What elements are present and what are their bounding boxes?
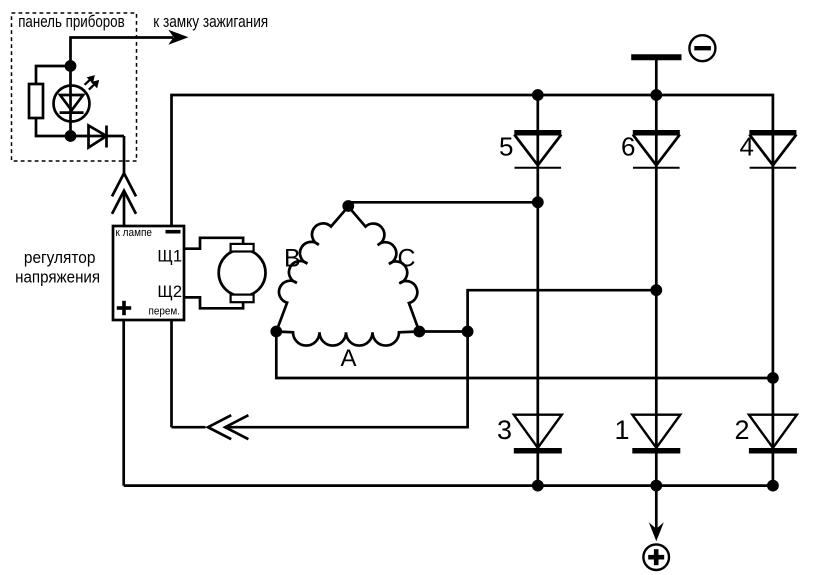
junction dot: delta bottom left bbox=[270, 326, 282, 338]
stator winding C (right side of delta) bbox=[348, 207, 419, 332]
junction dot: delta bottom right bbox=[413, 326, 425, 338]
dashed enclosure: instrument panel bbox=[12, 13, 137, 161]
svg-text:Щ2: Щ2 bbox=[157, 283, 182, 301]
arrowhead: plus output bbox=[649, 522, 664, 541]
diode 2 bbox=[749, 415, 797, 451]
wire: AC link left part bbox=[172, 426, 206, 429]
voltage regulator box bbox=[113, 226, 184, 320]
svg-text:4: 4 bbox=[740, 131, 754, 161]
junction dot: lamp top node bbox=[65, 60, 77, 72]
svg-text:С: С bbox=[398, 245, 416, 273]
stator winding A (bottom side of delta) bbox=[276, 332, 419, 346]
junction dot: top bus column 6 bbox=[650, 89, 662, 101]
wire: phase node up and to column 6 bbox=[468, 290, 657, 331]
wire: panel to regulator lamp terminal (upper) bbox=[123, 136, 126, 173]
junction dot: delta apex bbox=[342, 200, 354, 212]
stator winding B (left side of delta) bbox=[276, 207, 348, 332]
junction dot: lamp bottom node bbox=[65, 130, 77, 142]
wire: regulator AC terminal down bbox=[170, 320, 173, 427]
svg-text:1: 1 bbox=[614, 415, 629, 445]
junction dot: bottom bus right rail bbox=[767, 480, 779, 492]
wire: regulator plus down left rail bbox=[122, 320, 125, 486]
negative terminal bar bbox=[631, 54, 681, 60]
arrowhead: to ignition switch bbox=[168, 30, 188, 45]
diode VD (panel blocking diode) bbox=[89, 126, 107, 148]
svg-text:А: А bbox=[341, 345, 357, 372]
brush Sch1 (top) bbox=[231, 244, 254, 252]
wire: resistor branch bottom bbox=[36, 118, 71, 136]
svg-text:В: В bbox=[284, 245, 301, 273]
connector chevron left 1 bbox=[208, 415, 231, 439]
wire: delta bottom right to phase node bbox=[419, 330, 467, 333]
svg-text:напряжения: напряжения bbox=[15, 267, 100, 286]
wire: lamp output to panel diode bbox=[71, 135, 125, 138]
junction dot: apex wire to column 5 bbox=[532, 196, 544, 208]
junction dot: top bus column 5 bbox=[532, 89, 544, 101]
svg-text:регулятор: регулятор bbox=[24, 248, 96, 267]
diode 4 bbox=[749, 133, 796, 168]
svg-text:5: 5 bbox=[499, 131, 513, 161]
brush Sch2 (bottom) bbox=[231, 295, 254, 303]
junction dot: bottom bus column 5 bbox=[532, 480, 544, 492]
svg-text:6: 6 bbox=[621, 131, 635, 161]
wire: bottom positive bus bbox=[124, 484, 773, 487]
wire: LED vertical branch bbox=[69, 66, 72, 136]
svg-text:Щ1: Щ1 bbox=[157, 247, 182, 265]
wire: delta apex to column 5 bbox=[348, 201, 538, 204]
LED emission arrow 1 bbox=[85, 76, 95, 85]
diode 3 bbox=[514, 415, 562, 451]
svg-text:перем.: перем. bbox=[149, 306, 181, 318]
diode 1 bbox=[632, 415, 680, 451]
junction dot: phase wire to column 6 bbox=[650, 284, 662, 296]
svg-text:к замку зажигания: к замку зажигания bbox=[153, 12, 268, 31]
LED HL (charge warning lamp) bbox=[54, 86, 90, 122]
rotor field winding (slip ring circle) bbox=[219, 249, 266, 296]
connector chevron up 2 bbox=[112, 191, 136, 214]
wire: negative bus (regulator minus up, across top, down right rail) bbox=[172, 95, 773, 486]
wire: AC link right part bbox=[225, 332, 467, 428]
svg-text:3: 3 bbox=[497, 415, 512, 445]
wire: rectifier column 5/3 bbox=[536, 95, 539, 486]
junction dot: right rail phase tap bbox=[767, 372, 779, 384]
negative terminal symbol (circled minus) bbox=[689, 35, 715, 61]
wire: resistor branch top bbox=[36, 66, 71, 84]
junction dot: phase A/C node bbox=[462, 326, 474, 338]
svg-text:панель приборов: панель приборов bbox=[18, 12, 125, 31]
wire: column 6 to plus output bbox=[655, 486, 658, 534]
regulator minus mark bbox=[166, 230, 181, 234]
wire: chevron to regulator box top bbox=[123, 191, 126, 226]
wire: brush Sch1 bracket bbox=[184, 238, 243, 249]
diode 6 bbox=[633, 133, 680, 168]
connector chevron left 2 bbox=[225, 415, 248, 439]
svg-text:2: 2 bbox=[734, 415, 749, 445]
wire: brush Sch2 bracket bbox=[184, 297, 243, 308]
LED emission arrow 2 bbox=[89, 81, 99, 90]
connector chevron up 1 bbox=[112, 173, 136, 196]
resistor R (lamp shunt) bbox=[29, 84, 43, 118]
svg-text:к лампе: к лампе bbox=[116, 227, 153, 239]
junction dot: bottom bus column 6 bbox=[650, 480, 662, 492]
diode 5 bbox=[514, 133, 561, 168]
positive terminal symbol (circled plus) bbox=[643, 544, 669, 570]
wire: delta bottom left down and to right rail bbox=[276, 332, 773, 379]
regulator plus mark bbox=[117, 301, 131, 315]
wire: lamp node to ignition switch arrow bbox=[71, 38, 174, 67]
wire: rectifier column 6/1 from minus bar to bottom bus bbox=[655, 57, 658, 485]
